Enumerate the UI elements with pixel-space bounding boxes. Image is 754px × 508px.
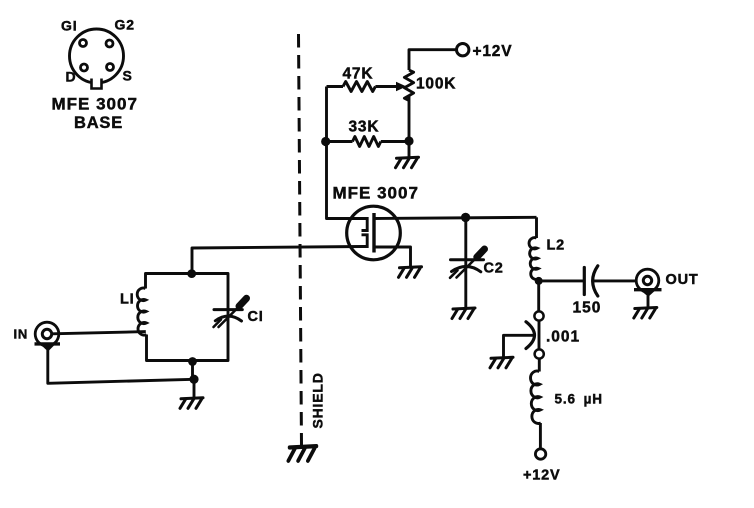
svg-text:GI: GI [61, 18, 77, 34]
svg-text:LI: LI [120, 292, 135, 308]
svg-text:BASE: BASE [74, 114, 123, 132]
svg-text:47K: 47K [343, 66, 374, 83]
svg-text:5.6 µH: 5.6 µH [555, 392, 603, 407]
svg-text:MFE 3007: MFE 3007 [52, 95, 138, 114]
svg-text:+12V: +12V [523, 468, 560, 484]
svg-text:150: 150 [573, 300, 602, 317]
svg-text:G2: G2 [115, 17, 135, 33]
svg-text:C2: C2 [484, 261, 504, 277]
svg-text:SHIELD: SHIELD [310, 372, 326, 428]
svg-text:MFE 3007: MFE 3007 [333, 184, 419, 203]
svg-text:L2: L2 [547, 238, 566, 254]
svg-text:.001: .001 [546, 329, 580, 346]
svg-text:CI: CI [248, 309, 264, 325]
svg-text:+12V: +12V [473, 43, 513, 60]
svg-text:OUT: OUT [666, 272, 699, 288]
svg-text:D: D [66, 69, 77, 85]
svg-text:S: S [123, 68, 133, 84]
svg-text:33K: 33K [349, 119, 380, 136]
svg-text:IN: IN [14, 327, 29, 342]
svg-text:100K: 100K [416, 76, 456, 93]
